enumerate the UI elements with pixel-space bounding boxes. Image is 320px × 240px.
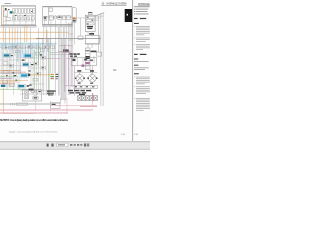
orange hydraulic trunk lines <box>0 6 69 113</box>
accumulator small boxes left <box>2 46 13 83</box>
numbered paragraph 3 <box>134 44 150 50</box>
box B wire drops <box>45 20 67 27</box>
purple solenoid blob <box>82 65 85 67</box>
left manual page (foldout schematic page) <box>0 0 132 141</box>
diagonal riser wire <box>95 13 104 17</box>
bottom-left junction box <box>23 90 42 102</box>
small pilot box <box>78 36 83 39</box>
section header 8.30.5 <box>134 54 138 55</box>
junction pair boxes <box>20 90 50 94</box>
svg-text:N0.750747 - How to (heavy l: N0.750747 - How to (heavy load) operatio… <box>0 119 69 122</box>
solenoid valve SV1 <box>24 54 33 57</box>
aux box right of junction <box>51 103 61 109</box>
green sensor lines <box>0 48 48 96</box>
cross wires left of valve body <box>50 52 71 54</box>
gray trunk band <box>60 38 66 100</box>
small relief valve box <box>97 52 102 56</box>
solenoid valve SV4 <box>18 84 29 88</box>
cross-links mid <box>0 47 55 90</box>
valve bank: small box on top <box>88 12 92 15</box>
right header <box>138 3 150 6</box>
numbered paragraph 2 <box>134 86 150 93</box>
chapter tab (black) <box>125 9 132 22</box>
section header 8.30.4 <box>134 18 138 19</box>
motor port labels <box>78 83 81 84</box>
Purpose <box>134 59 138 60</box>
solenoid valve SV6 (left edge) <box>1 85 5 87</box>
gray bottom wires <box>0 98 65 105</box>
pink return lines web <box>0 93 97 113</box>
control unit box A <box>2 6 36 25</box>
filter drop wire <box>73 23 75 45</box>
right bus vertical wires <box>88 13 103 106</box>
purple link to manifold <box>65 85 74 87</box>
valve bank lower block <box>85 35 99 43</box>
Operation: <box>134 23 139 24</box>
junction dots mid-left <box>6 70 31 80</box>
manifold box under motors <box>74 85 97 88</box>
box A dark sensor blob <box>5 8 7 10</box>
wire from filter to valve bank <box>76 17 85 19</box>
solenoid stack <box>85 48 90 70</box>
Example <box>134 65 138 66</box>
title text above box A <box>4 2 10 5</box>
intro line <box>134 5 150 8</box>
swing motor M1 (X circle) <box>76 72 84 82</box>
filter column box <box>72 8 76 23</box>
right manual page <box>133 0 150 141</box>
purple pilot cross line <box>44 58 71 60</box>
teal pilot line <box>0 43 57 45</box>
solenoid valve SV2 <box>22 63 30 67</box>
pump unit box B <box>43 6 72 24</box>
note text block <box>47 90 56 95</box>
box B internals <box>43 7 72 24</box>
check valve row (X|X|X) <box>78 96 98 101</box>
connector stub note (-4) <box>113 69 116 70</box>
mid cluster header labels <box>69 53 80 57</box>
pdf viewer toolbar <box>47 143 90 147</box>
box A teal indicator <box>10 11 13 13</box>
main gray bus wire <box>36 37 101 39</box>
component id label rows <box>68 90 91 94</box>
travel motor M2 (X circle) <box>89 72 97 82</box>
light blue pressure zone wash <box>0 42 45 58</box>
blue component patches <box>8 44 16 49</box>
solenoid valve SV3 (bright) <box>20 74 30 78</box>
wire mesh verticals <box>2 27 64 96</box>
green stub wire <box>38 44 40 62</box>
box A wire drops <box>3 14 34 25</box>
stack label row <box>91 51 97 53</box>
wire ladder bundle <box>69 23 73 96</box>
bank output wires to right bus <box>95 13 104 21</box>
colored pilot bus lines (left) <box>0 70 30 86</box>
valve bank upper block <box>85 15 95 31</box>
red pressure stubs <box>80 93 97 106</box>
Operation: <box>134 73 139 74</box>
numbered paragraph 1 <box>134 77 150 85</box>
svg-text:Copyright © Construction Equip: Copyright © Construction Equipment. All … <box>9 131 58 134</box>
bullet lines <box>134 8 135 11</box>
wire above motors <box>74 71 97 73</box>
gray wire drops from boxes A/B <box>5 27 66 96</box>
scattered dark component dots <box>5 46 46 74</box>
left page header "30 HYDRAULIC SYSTEM" <box>102 3 127 6</box>
legend cluster (orange/green marks) <box>30 74 59 79</box>
purple pilot lines <box>58 45 92 95</box>
inlet boxes left of trunk <box>40 48 44 51</box>
bus drop wires <box>42 38 50 52</box>
box A internals: component row <box>4 9 35 21</box>
valve bank dark label cluster <box>87 26 93 27</box>
solenoid valve SV5 <box>3 54 11 58</box>
wash component boxes row <box>9 46 55 87</box>
numbered paragraph 1 <box>134 26 150 35</box>
numbered paragraph 3 <box>134 98 150 111</box>
control valve body box <box>71 58 96 66</box>
small dark labels near valves <box>11 55 34 86</box>
page gap line <box>131 0 134 141</box>
numbered paragraph 2 <box>134 38 150 42</box>
dark junction blob <box>63 49 69 52</box>
viewer background below pages <box>0 141 150 150</box>
